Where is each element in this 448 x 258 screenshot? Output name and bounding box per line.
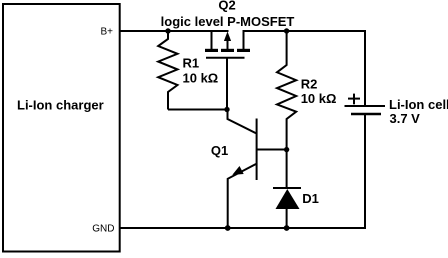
wire R1 bottom to gate junction bbox=[168, 109, 227, 111]
Q1 base bar bbox=[256, 119, 258, 181]
Li-Ion charger box bbox=[3, 4, 120, 252]
svg-text:R2: R2 bbox=[301, 77, 318, 92]
svg-text:Li-Ion cell: Li-Ion cell bbox=[389, 97, 448, 112]
Q1 collector lead bbox=[228, 110, 257, 134]
svg-text:3.7 V: 3.7 V bbox=[390, 111, 421, 126]
node gate junction bbox=[224, 107, 229, 112]
transistor Q1 bbox=[228, 110, 287, 229]
svg-text:GND: GND bbox=[92, 224, 114, 235]
wire B+ to MOSFET source bbox=[120, 30, 229, 32]
svg-text:D1: D1 bbox=[302, 191, 319, 206]
svg-text:R1: R1 bbox=[183, 56, 200, 71]
svg-text:B+: B+ bbox=[100, 27, 113, 38]
svg-text:logic level P-MOSFET: logic level P-MOSFET bbox=[161, 14, 295, 29]
Q1 emitter arrow bbox=[232, 166, 243, 175]
Q2 body arrow bbox=[227, 40, 229, 49]
wire battery negative to GND rail bbox=[120, 114, 366, 228]
svg-text:10 kΩ: 10 kΩ bbox=[301, 91, 337, 106]
node R1 top junction bbox=[165, 28, 170, 33]
wire Q2 gate lead bbox=[226, 58, 228, 110]
Q1 emitter lead bbox=[228, 164, 257, 228]
D1 cathode bar bbox=[273, 187, 301, 189]
D1 anode lead bbox=[286, 208, 288, 228]
resistor R2 bbox=[277, 31, 296, 150]
battery negative plate bbox=[351, 113, 381, 116]
node Q1 base junction bbox=[284, 147, 289, 152]
Q2 source stub bbox=[211, 30, 213, 49]
diode D1 bbox=[273, 150, 301, 228]
svg-text:10 kΩ: 10 kΩ bbox=[183, 71, 219, 86]
battery positive plate bbox=[345, 105, 386, 107]
transistor Q2 logic level P-MOSFET bbox=[205, 30, 250, 58]
wire drain to battery positive bbox=[244, 31, 366, 106]
resistor R1 bbox=[158, 31, 177, 110]
Q2 drain stub bbox=[243, 30, 245, 49]
node R2 top junction bbox=[284, 28, 289, 33]
svg-text:Q2: Q2 bbox=[218, 0, 235, 13]
D1 cathode lead bbox=[286, 150, 288, 188]
svg-text:Li-Ion charger: Li-Ion charger bbox=[17, 98, 104, 113]
D1 triangle bbox=[276, 189, 300, 209]
Q2 channel bars bbox=[205, 49, 218, 52]
battery plus sign bbox=[348, 98, 360, 100]
svg-text:Q1: Q1 bbox=[211, 143, 228, 158]
node Q1 emitter GND junction bbox=[225, 225, 231, 231]
node D1 GND junction bbox=[284, 225, 290, 231]
battery cell B1 bbox=[345, 94, 386, 114]
Q2 gate plate bbox=[206, 57, 245, 59]
Q1 base lead bbox=[257, 149, 287, 151]
